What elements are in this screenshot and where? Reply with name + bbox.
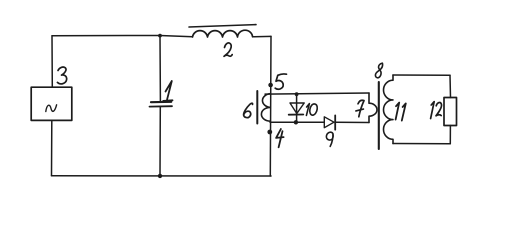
node dot diode10 top bbox=[295, 92, 299, 96]
wire top rail bbox=[52, 36, 193, 37]
wire mid loop bottom right bbox=[335, 121, 369, 123]
label 5 bbox=[275, 74, 286, 89]
wire right loop right lower bbox=[449, 126, 451, 144]
wire bottom rail bbox=[52, 175, 272, 177]
label 11 bbox=[396, 103, 406, 121]
label 4 bbox=[276, 129, 284, 147]
label 9 bbox=[326, 132, 333, 146]
load R12 rect bbox=[444, 98, 457, 126]
transformer T2 core bar bbox=[378, 82, 380, 149]
transformer winding 7 (right edge of mid loop) bbox=[369, 93, 377, 123]
label 3 bbox=[57, 67, 66, 84]
wire right vertical main bbox=[269, 36, 272, 176]
label 10 bbox=[306, 104, 317, 116]
label 1 bbox=[163, 81, 172, 101]
diode VD10 cathode bar bbox=[289, 114, 304, 116]
capacitor C1 bottom plate bbox=[150, 105, 173, 107]
transformer core bar left bbox=[256, 91, 258, 124]
diode VD10 branch wire bbox=[296, 94, 298, 122]
node dot diode10 bottom bbox=[294, 120, 298, 124]
diode VD9 triangle bbox=[324, 117, 334, 128]
label 6 bbox=[244, 103, 253, 117]
wire inductor to right corner bbox=[253, 35, 271, 37]
wire right loop bottom bbox=[393, 143, 450, 145]
wire top-left vertical bbox=[51, 36, 53, 87]
AC source sine symbol bbox=[46, 105, 57, 112]
label 7 bbox=[356, 100, 364, 117]
wire right loop right upper bbox=[449, 75, 452, 97]
transformer winding 6 bbox=[261, 94, 270, 122]
node 5 dot bbox=[268, 83, 273, 88]
label 8 bbox=[375, 63, 382, 78]
wire right loop top bbox=[393, 74, 450, 76]
capacitor C1 top wire bbox=[159, 36, 161, 102]
capacitor C1 top plate bbox=[151, 101, 171, 104]
label 2 bbox=[224, 43, 232, 56]
transformer winding 11 bbox=[384, 75, 394, 144]
label 12 bbox=[431, 102, 442, 119]
inductor L2 winding bbox=[193, 30, 253, 37]
node junction dot top of capacitor bbox=[158, 34, 162, 38]
inductor L2 core line bbox=[189, 25, 256, 27]
AC source box G3 bbox=[31, 87, 72, 120]
wire below source box bbox=[51, 120, 53, 175]
node 4 dot bbox=[267, 130, 272, 135]
node junction dot bottom of capacitor bbox=[158, 174, 162, 178]
wire mid loop bottom left bbox=[270, 121, 324, 123]
wire mid loop top bbox=[265, 93, 369, 94]
capacitor C1 bottom wire bbox=[159, 107, 161, 176]
diode VD10 triangle bbox=[290, 103, 304, 114]
diode VD9 cathode bar bbox=[334, 115, 336, 129]
